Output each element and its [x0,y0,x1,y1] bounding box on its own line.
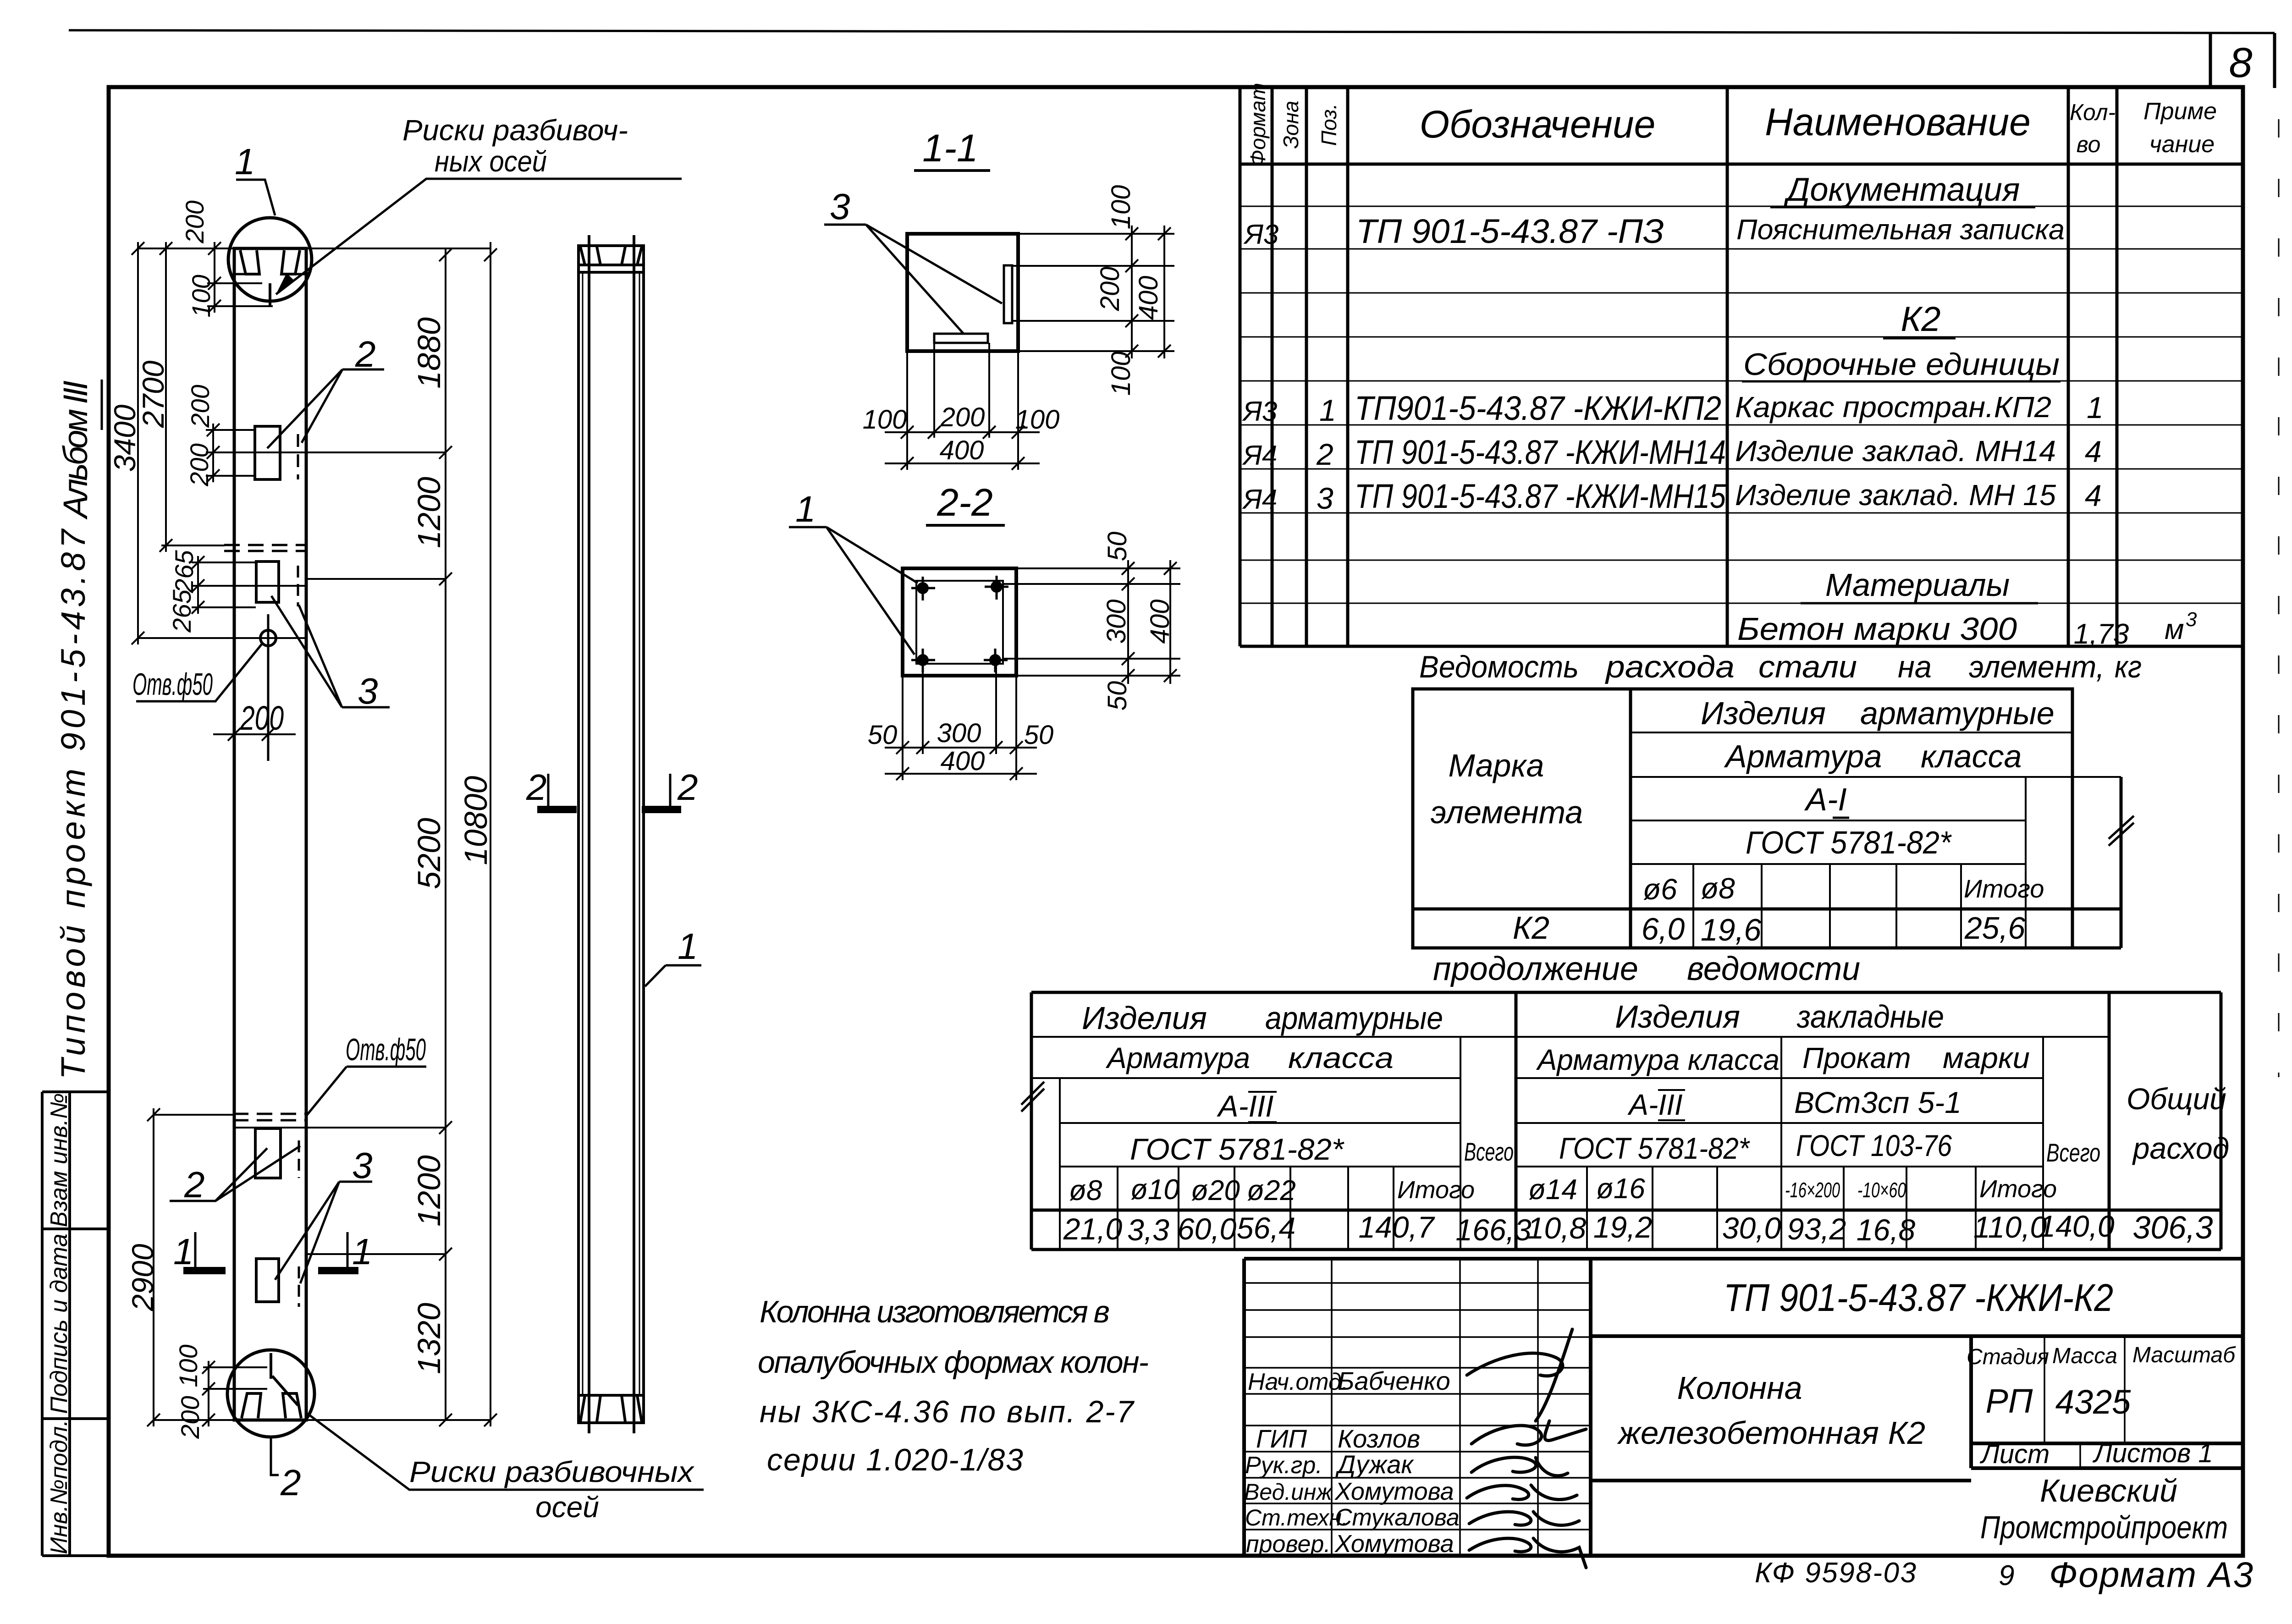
svg-text:Стукалова: Стукалова [1335,1504,1460,1531]
steel table grid [1413,689,2121,948]
svg-text:Вед.инж: Вед.инж [1244,1479,1333,1505]
svg-text:Изделия: Изделия [1615,999,1740,1035]
svg-text:ø6: ø6 [1643,873,1677,906]
spec table grid [1240,87,2243,646]
section 1-1 square [907,234,1018,351]
steel table break mark [2109,816,2134,846]
svg-text:Отв.ф50: Отв.ф50 [346,1032,426,1067]
svg-text:Сборочные единицы: Сборочные единицы [1743,347,2060,382]
svg-text:200: 200 [176,1396,204,1439]
left stamp boxes [42,1092,109,1556]
embedded plate pos.2 lower [255,1129,281,1178]
svg-text:железобетонная К2: железобетонная К2 [1617,1415,1925,1451]
svg-text:Арматура класса: Арматура класса [1536,1043,1780,1076]
svg-text:Итого: Итого [1979,1175,2057,1203]
svg-text:Колонна: Колонна [1677,1370,1802,1406]
section mark 1 right [318,1231,373,1272]
svg-text:Формат: Формат [1246,83,1270,167]
svg-text:9: 9 [1999,1560,2014,1591]
svg-text:Хомутова: Хомутова [1334,1530,1454,1558]
svg-text:2900: 2900 [126,1244,160,1311]
svg-text:на: на [1898,650,1932,684]
section 1-1 bottom dims [885,343,1040,470]
svg-text:Документация: Документация [1784,171,2020,208]
svg-text:93,2: 93,2 [1787,1212,1846,1246]
svg-text:4325: 4325 [2055,1383,2131,1421]
bottom detail circle [227,1350,314,1437]
svg-text:ø8: ø8 [1069,1175,1102,1206]
svg-text:Обозначение: Обозначение [1420,103,1656,146]
hidden plate dashes upper pos.3 [298,566,306,606]
svg-text:класса: класса [1288,1041,1394,1074]
long line plate2 centre to right chain [206,451,446,453]
svg-text:19,6: 19,6 [1701,913,1762,947]
section mark 2 left [526,767,577,809]
svg-text:ГОСТ 5781-82*: ГОСТ 5781-82* [1130,1132,1344,1166]
lower hole dashed lines [233,1114,306,1120]
svg-text:50: 50 [868,720,898,750]
svg-text:м: м [2165,614,2184,645]
svg-text:РП: РП [1986,1382,2033,1420]
svg-text:3: 3 [352,1145,373,1186]
dim 200/200 plate2 chain [206,424,256,482]
svg-text:-16×200: -16×200 [1785,1178,1840,1202]
svg-text:марки: марки [1943,1041,2030,1074]
svg-text:Всего: Всего [2046,1138,2100,1167]
dim 100/200 bottom chain [202,1361,267,1426]
svg-text:Взам инв.№: Взам инв.№ [46,1093,72,1228]
svg-text:100: 100 [1106,185,1136,230]
top edge line [69,30,2275,33]
top centre riska tick [269,283,271,306]
leader риски top text [276,114,682,294]
svg-text:19,2: 19,2 [1593,1210,1652,1244]
svg-text:50: 50 [1102,532,1132,562]
svg-text:закладные: закладные [1796,999,1944,1035]
svg-text:ведомости: ведомости [1687,951,1860,987]
section 2-2 bottom dims [885,664,1037,780]
svg-text:200: 200 [185,443,214,486]
svg-text:3: 3 [358,671,378,711]
svg-text:ø22: ø22 [1247,1175,1296,1206]
svg-text:3,3: 3,3 [1127,1213,1169,1247]
svg-text:3: 3 [1317,481,1333,515]
svg-text:265: 265 [170,550,198,593]
svg-text:2: 2 [677,767,698,808]
svg-text:Итого: Итого [1397,1176,1475,1204]
svg-text:Бетон марки 300: Бетон марки 300 [1737,611,2017,647]
svg-text:арматурные: арматурные [1860,695,2055,731]
hidden plate dashes upper pos.2 [298,434,306,479]
svg-text:10800: 10800 [458,776,494,865]
svg-text:Приме: Приме [2143,98,2217,125]
svg-text:16,8: 16,8 [1857,1213,1916,1247]
svg-text:2-2: 2-2 [937,481,992,524]
svg-text:Промстройпроект: Промстройпроект [1980,1509,2228,1545]
svg-text:4: 4 [2085,435,2102,468]
svg-text:арматурные: арматурные [1265,1000,1443,1036]
overall chain 10800 [306,242,497,1426]
svg-text:ø8: ø8 [1701,872,1735,905]
svg-text:1200: 1200 [411,477,447,548]
svg-text:Зона: Зона [1279,101,1303,149]
svg-text:Рук.гр.: Рук.гр. [1245,1452,1322,1479]
svg-text:200: 200 [186,385,215,428]
svg-text:К2: К2 [1513,910,1549,946]
svg-text:Отв.ф50: Отв.ф50 [132,667,213,702]
svg-text:-10×60: -10×60 [1857,1178,1906,1202]
svg-text:Я3: Я3 [1242,396,1277,427]
svg-text:100: 100 [187,275,215,317]
extension line top edge [138,248,490,249]
svg-text:ГОСТ 5781-82*: ГОСТ 5781-82* [1559,1131,1750,1165]
svg-text:1: 1 [795,489,816,529]
svg-text:60,0: 60,0 [1178,1212,1237,1246]
dim line 2900 [147,1108,234,1426]
svg-text:Изделия: Изделия [1701,695,1826,731]
svg-text:Арматура: Арматура [1105,1041,1250,1074]
long line plate3 centre [192,585,306,587]
section 1-1 bottom plate MH14 [934,334,988,343]
bottom riski marks (trapezoids) [242,1393,301,1418]
svg-text:200: 200 [1095,267,1125,312]
section 2-2 rebar dots [917,581,1003,666]
svg-text:Стадия: Стадия [1967,1345,2049,1369]
svg-text:кг: кг [2115,650,2142,684]
extension line hole level 3400 [138,637,306,639]
svg-text:ø20: ø20 [1191,1175,1240,1206]
svg-text:ТП901-5-43.87 -КЖИ-КП2: ТП901-5-43.87 -КЖИ-КП2 [1355,389,1721,427]
svg-text:ТП 901-5-43.87 -КЖИ-МН15: ТП 901-5-43.87 -КЖИ-МН15 [1355,477,1726,515]
section 2-2 right dims [1004,560,1180,684]
svg-text:2: 2 [1316,437,1333,471]
svg-text:4: 4 [2085,479,2102,512]
svg-text:2: 2 [280,1462,301,1503]
svg-text:400: 400 [1134,276,1163,320]
svg-text:стали: стали [1758,650,1857,684]
continuation table grid [1031,992,2221,1250]
svg-text:400: 400 [940,435,984,465]
svg-text:1: 1 [173,1231,194,1272]
svg-text:Изделия: Изделия [1082,1000,1207,1036]
svg-text:6,0: 6,0 [1642,912,1685,947]
hole leader Отв.ф50 lower [307,1067,426,1115]
svg-text:Масштаб: Масштаб [2132,1343,2236,1367]
svg-text:Изделие заклад. МН 15: Изделие заклад. МН 15 [1735,479,2056,512]
svg-text:400: 400 [941,746,985,776]
scan edge dashed artifact right [2278,119,2280,1077]
svg-text:осей: осей [535,1491,599,1524]
svg-text:Поз.: Поз. [1317,104,1341,146]
svg-text:Я3: Я3 [1243,219,1278,250]
title block outer & thick lines [1244,1259,2243,1556]
top riski marks (trapezoids) [240,250,300,274]
svg-text:1320: 1320 [411,1303,447,1374]
svg-text:30,0: 30,0 [1722,1211,1781,1245]
svg-text:Масса: Масса [2052,1344,2117,1368]
svg-text:300: 300 [937,718,981,748]
svg-text:Общий: Общий [2127,1082,2226,1116]
svg-text:1: 1 [235,141,255,182]
svg-text:ТП 901-5-43.87 -КЖИ-К2: ТП 901-5-43.87 -КЖИ-К2 [1724,1276,2113,1319]
svg-text:300: 300 [1102,600,1131,644]
svg-text:ГИП: ГИП [1256,1424,1307,1453]
svg-text:ТП 901-5-43.87 -КЖИ-МН14: ТП 901-5-43.87 -КЖИ-МН14 [1355,433,1726,471]
svg-text:306,3: 306,3 [2132,1210,2213,1245]
extension line console level 2700 [161,545,225,546]
svg-text:А-III: А-III [1627,1088,1683,1121]
svg-text:ВСт3сп 5-1: ВСт3сп 5-1 [1794,1085,1961,1119]
column body front view [234,248,306,1420]
svg-text:Марка: Марка [1449,748,1544,783]
svg-text:Дужак: Дужак [1335,1450,1414,1479]
svg-text:Хомутова: Хомутова [1334,1478,1454,1505]
svg-text:Кол-: Кол- [2070,99,2116,125]
dim line 3400 [132,242,144,644]
hidden plate dashes lower pos.3 [299,1266,306,1307]
svg-text:200: 200 [180,200,209,243]
svg-text:А-I: А-I [1804,782,1846,817]
svg-text:1: 1 [352,1231,373,1272]
dim 265/265 plate3 chain [192,556,256,614]
svg-text:100: 100 [1106,352,1136,396]
continuation table left break mark [1021,1082,1044,1112]
svg-text:100: 100 [863,405,907,435]
svg-text:Альбом III: Альбом III [56,380,94,520]
bottom centre riska tick [271,1353,298,1405]
hole leader Отв.ф50 upper [136,644,262,701]
svg-text:класса: класса [1921,738,2022,774]
svg-text:3: 3 [2186,608,2197,631]
hidden plate dashes lower pos.2 [299,1140,306,1178]
svg-text:2: 2 [526,767,547,808]
svg-text:1: 1 [678,926,698,967]
svg-text:Риски разбивоч-: Риски разбивоч- [402,114,628,147]
console level dashed lines upper [224,545,307,551]
section 2-2 stirrup [916,581,1003,664]
svg-text:Риски разбивочных: Риски разбивочных [409,1455,694,1488]
svg-text:200: 200 [240,699,284,737]
svg-text:Я4: Я4 [1242,440,1277,471]
svg-text:Подпись и дата: Подпись и дата [46,1233,72,1414]
svg-text:Арматура: Арматура [1724,738,1882,774]
svg-text:400: 400 [1145,600,1175,644]
sheet number box [2210,32,2275,88]
svg-text:опалубочных формах колон-: опалубочных формах колон- [758,1345,1149,1380]
svg-text:Наименование: Наименование [1765,100,2031,143]
side view inner edge lines [589,235,634,1433]
svg-text:2: 2 [184,1164,205,1205]
svg-text:Лист: Лист [1979,1439,2050,1469]
svg-text:Каркас простран.КП2: Каркас простран.КП2 [1735,391,2051,424]
svg-text:Я4: Я4 [1242,484,1277,515]
svg-text:1200: 1200 [411,1155,447,1227]
svg-text:А-III: А-III [1216,1089,1273,1123]
svg-text:21,0: 21,0 [1063,1212,1123,1246]
svg-text:ны 3КС-4.36 по вып. 2-7: ны 3КС-4.36 по вып. 2-7 [760,1394,1135,1429]
svg-text:Материалы: Материалы [1825,567,2010,603]
left margin rotated title: Типовой проект 901-5-43.87 Альбом III [54,380,102,1079]
svg-text:Итого: Итого [1964,874,2044,903]
svg-text:расхода: расхода [1605,650,1735,684]
svg-text:2700: 2700 [136,360,170,428]
svg-text:провер.: провер. [1246,1531,1331,1558]
top detail circle [228,218,312,301]
dim 200/100 top chain [207,242,273,313]
svg-text:8: 8 [2229,39,2252,86]
svg-text:Киевский: Киевский [2040,1473,2177,1508]
column body side view [579,246,644,1423]
svg-text:1880: 1880 [411,317,447,389]
svg-text:Изделие заклад. МН14: Изделие заклад. МН14 [1735,435,2056,468]
svg-text:1,73: 1,73 [2074,618,2129,650]
embedded plate pos.3 upper [256,562,279,602]
svg-text:100: 100 [174,1344,203,1387]
embedded plate pos.2 upper [255,426,280,479]
title block thin grid [1244,1259,2125,1556]
svg-text:110,0: 110,0 [1973,1210,2047,1244]
svg-text:ø14: ø14 [1528,1174,1577,1206]
section 1-1 right dims [1012,226,1174,358]
svg-text:элемента: элемента [1431,794,1583,830]
svg-text:166,3: 166,3 [1455,1213,1531,1247]
svg-text:200: 200 [940,402,985,432]
svg-text:расход: расход [2132,1131,2229,1165]
side view top end detail [579,247,644,272]
svg-text:элемент,: элемент, [1969,650,2105,684]
svg-text:25,6: 25,6 [1964,911,2026,946]
svg-text:5200: 5200 [411,818,447,889]
svg-text:140,0: 140,0 [2039,1209,2114,1243]
section 1-1 right plate MH15 [1004,265,1012,323]
section 2-2 square [903,568,1016,676]
svg-text:ГОСТ 5781-82*: ГОСТ 5781-82* [1746,825,1952,860]
svg-text:50: 50 [1102,681,1132,711]
dim 200 at hole [213,728,296,741]
svg-text:265: 265 [167,589,196,633]
svg-text:100: 100 [1015,405,1060,435]
svg-text:Формат А3: Формат А3 [2049,1554,2253,1595]
svg-text:56,4: 56,4 [1237,1211,1295,1245]
svg-text:140,7: 140,7 [1358,1210,1435,1244]
svg-text:КФ 9598-03: КФ 9598-03 [1755,1557,1916,1589]
svg-text:Козлов: Козлов [1338,1424,1420,1453]
svg-text:чание: чание [2149,131,2215,158]
svg-text:Нач.отд.: Нач.отд. [1248,1369,1348,1395]
embedded plate pos.3 lower [256,1259,279,1302]
svg-text:ø16: ø16 [1596,1173,1645,1205]
svg-text:ГОСТ 103-76: ГОСТ 103-76 [1796,1129,1952,1162]
section mark 2 right [642,767,698,809]
svg-text:ных осей: ных осей [435,145,547,178]
svg-text:Ведомость: Ведомость [1419,650,1579,684]
section mark 1 left [173,1231,226,1272]
svg-text:1: 1 [1319,393,1336,427]
svg-text:продолжение: продолжение [1433,951,1638,987]
svg-text:Прокат: Прокат [1802,1041,1911,1074]
svg-text:ø10: ø10 [1130,1174,1179,1206]
svg-text:Колонна изготовляется в: Колонна изготовляется в [760,1294,1110,1329]
svg-text:Всего: Всего [1464,1137,1514,1166]
svg-text:во: во [2077,132,2101,157]
dim line 2700 [160,242,172,552]
svg-text:1: 1 [2087,391,2104,424]
signature squiggles [1467,1329,1586,1568]
svg-text:3: 3 [830,186,850,227]
svg-text:ТП 901-5-43.87 -ПЗ: ТП 901-5-43.87 -ПЗ [1356,212,1664,250]
svg-text:50: 50 [1024,720,1054,750]
риски bottom text with leader [310,1415,704,1524]
svg-text:Ст.техн.: Ст.техн. [1245,1505,1348,1530]
svg-text:1-1: 1-1 [922,127,978,170]
svg-text:Бабченко: Бабченко [1338,1366,1450,1395]
right chain 1880/1200/5200/1200/1320 [234,248,452,1426]
svg-text:К2: К2 [1901,300,1940,339]
svg-text:Листов 1: Листов 1 [2092,1438,2213,1468]
hole Отв.ф50 upper [260,614,276,761]
svg-text:10,8: 10,8 [1527,1211,1587,1245]
svg-text:серии 1.020-1/83: серии 1.020-1/83 [767,1442,1023,1477]
side view bottom end detail [579,1395,644,1422]
svg-text:Пояснительная записка: Пояснительная записка [1736,214,2065,246]
svg-text:Инв.№подл.: Инв.№подл. [46,1420,72,1554]
